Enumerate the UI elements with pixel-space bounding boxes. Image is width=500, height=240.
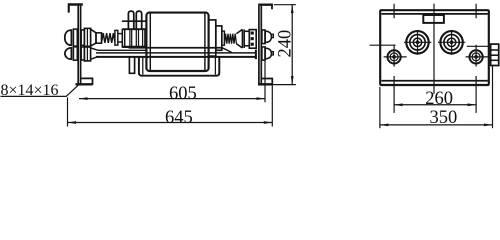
right bracket top hook <box>258 4 273 10</box>
upper rod disc <box>84 28 90 47</box>
end view box <box>380 10 489 85</box>
bushing <box>244 31 249 46</box>
inner top line <box>382 13 488 15</box>
stub shaft <box>118 33 122 35</box>
guide bar upper back line <box>129 47 222 49</box>
dim 645 line <box>68 122 273 124</box>
base tray <box>139 57 219 76</box>
right lower cap nub <box>272 52 274 55</box>
step block 2 <box>216 26 222 50</box>
inner bottom line <box>382 80 488 82</box>
lower rod cap <box>65 48 72 59</box>
upper rod cone <box>91 29 96 46</box>
centerline middle vertical <box>433 4 435 94</box>
leader line to foot slot <box>66 84 79 96</box>
guide bar bottom edge <box>96 56 256 58</box>
svg-text:645: 645 <box>165 108 193 128</box>
coil body <box>146 13 208 71</box>
dim 605 line <box>79 98 265 100</box>
svg-text:240: 240 <box>275 30 295 58</box>
svg-text:350: 350 <box>430 108 458 128</box>
dim 350 line <box>380 124 493 126</box>
extension 350 left <box>379 87 381 128</box>
small hole right <box>466 50 489 63</box>
guide bar end block <box>255 50 257 60</box>
left bracket top hook <box>68 3 83 12</box>
step block 3 <box>222 31 225 45</box>
left bracket plate <box>77 6 79 85</box>
lower rod washer <box>73 47 77 60</box>
big hole left <box>404 30 431 55</box>
right bracket foot <box>258 79 272 85</box>
centerline left hole vertical <box>393 4 395 113</box>
flare retainer <box>236 29 242 48</box>
front tube <box>121 29 123 48</box>
upper rod spacer <box>81 30 84 46</box>
big hole right <box>438 30 465 55</box>
terminal plate line <box>122 20 146 22</box>
threaded rod <box>224 34 236 44</box>
step block 1 <box>209 20 216 56</box>
right lower cap dome <box>265 48 271 59</box>
right upper cap nub <box>272 34 274 37</box>
upper rod sleeve <box>96 33 102 43</box>
lower rod spacer <box>81 47 84 60</box>
dim 240 vertical line <box>291 5 293 85</box>
extension line 645 left <box>67 97 69 126</box>
dim 260 line <box>394 104 476 106</box>
right lower cap washer <box>262 47 265 60</box>
base leg <box>129 57 134 73</box>
spring washer <box>115 30 118 45</box>
upper rod cap <box>65 30 72 45</box>
guide bar top edge <box>98 49 147 51</box>
svg-text:260: 260 <box>425 89 453 109</box>
extension line 605 right <box>264 61 266 103</box>
right bracket plate <box>258 6 260 85</box>
centerline right hole vertical <box>475 4 477 113</box>
spring <box>102 33 115 43</box>
right upper cap washer <box>262 30 265 44</box>
extension 350 right <box>492 66 494 128</box>
right upper cap dome <box>265 31 271 42</box>
left bracket foot <box>76 78 93 84</box>
upper rod washer <box>73 29 77 46</box>
terminal small rect <box>423 15 444 23</box>
slotted nut <box>249 30 256 49</box>
terminal arch 1 <box>128 11 133 28</box>
small hole left <box>384 50 407 63</box>
terminal arch 2 <box>136 11 141 28</box>
dim 240 bottom extension <box>262 84 296 86</box>
side plug ribs <box>491 44 499 65</box>
lower rod disc <box>84 46 90 61</box>
horizontal centerline right <box>467 45 490 47</box>
guide bar mid line <box>96 52 256 54</box>
horizontal centerline left <box>370 44 396 46</box>
extension line 645 right <box>271 85 273 126</box>
svg-text:605: 605 <box>169 84 197 104</box>
dim 240 top extension <box>274 4 296 6</box>
